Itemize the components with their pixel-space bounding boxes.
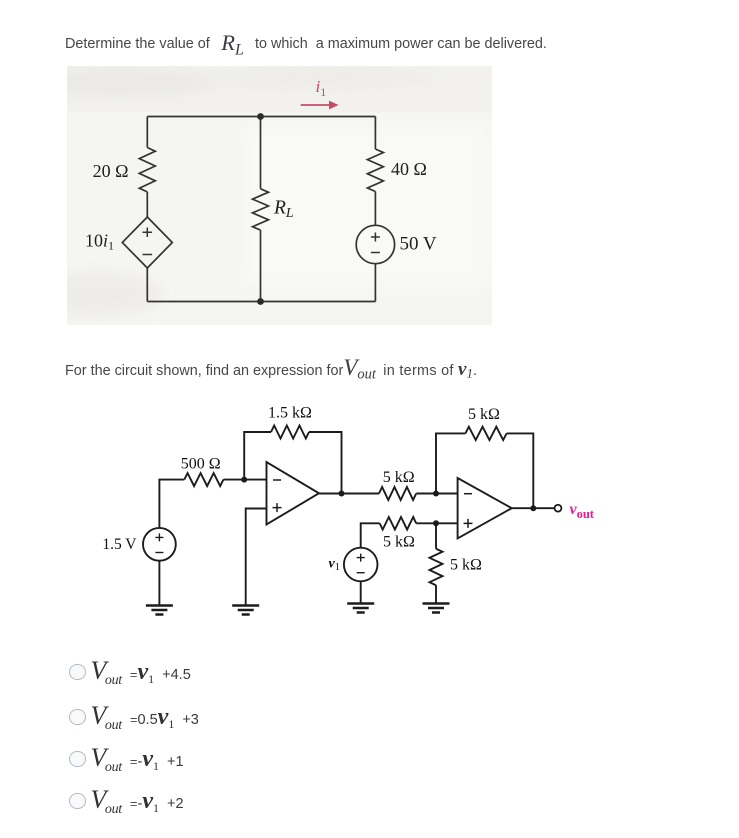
- svg-text:5 kΩ: 5 kΩ: [383, 534, 415, 551]
- voltage source v1 circle: [344, 548, 378, 582]
- wire source top to input line: [159, 480, 184, 528]
- wire left lower: [146, 268, 148, 302]
- wire feedback left vertical: [244, 432, 271, 480]
- plus minus inside 1.5V: [155, 533, 163, 552]
- svg-text:40 Ω: 40 Ω: [391, 159, 427, 179]
- voltage source 50V circle: [356, 225, 394, 263]
- wire v1 bottom: [360, 581, 362, 603]
- resistor 5k to v1: [380, 517, 417, 530]
- op-amp U1 triangle: [267, 462, 320, 525]
- wire right upper: [374, 117, 376, 150]
- resistor 1.5k feedback: [271, 426, 309, 439]
- wire op2 noninverting input line: [416, 522, 457, 524]
- wire to op1 inverting input: [223, 479, 266, 481]
- wire op2 feedback right vertical: [507, 433, 534, 508]
- svg-text:20 Ω: 20 Ω: [93, 161, 129, 181]
- resistor 5k vertical: [430, 549, 443, 586]
- terminal vout open circle: [555, 505, 562, 512]
- op2 minus plus signs: [464, 494, 473, 528]
- current arrow i1: [301, 101, 339, 110]
- wire middle lower: [260, 230, 262, 301]
- plus minus inside diamond: [143, 228, 153, 255]
- svg-text:vout: vout: [570, 501, 595, 521]
- wire right middle: [374, 192, 376, 226]
- svg-text:50 V: 50 V: [400, 234, 437, 255]
- plus minus inside 50V: [371, 233, 380, 253]
- question 2 text: [65, 355, 477, 384]
- svg-text:1.5 kΩ: 1.5 kΩ: [268, 405, 312, 422]
- ground under v1: [347, 604, 374, 613]
- wire node to vertical resistor: [435, 523, 437, 548]
- svg-text:v1: v1: [329, 557, 340, 574]
- resistor 5k feedback op2: [465, 427, 506, 440]
- voltage source 1.5V circle: [143, 528, 176, 561]
- ground under 5k vertical: [423, 604, 450, 613]
- wire bottom: [147, 301, 375, 303]
- resistor RL: [253, 189, 269, 230]
- svg-text:500 Ω: 500 Ω: [181, 456, 221, 473]
- node op2 output junction: [530, 505, 536, 511]
- ground under op1 plus: [232, 606, 259, 615]
- ground under 1.5V: [146, 606, 173, 615]
- node op1 output junction: [339, 491, 345, 497]
- wire op2 output: [512, 507, 555, 509]
- svg-text:5 kΩ: 5 kΩ: [383, 469, 415, 486]
- op1 minus plus signs: [273, 480, 282, 512]
- node top junction: [257, 113, 264, 120]
- dependent source 10i1 diamond: [122, 217, 172, 268]
- op-amp U2 triangle: [458, 478, 512, 538]
- node op2 inverting junction: [433, 491, 439, 497]
- wire vertical resistor to ground: [435, 585, 437, 603]
- svg-text:5 kΩ: 5 kΩ: [450, 557, 482, 574]
- wire feedback right vertical to output: [309, 432, 342, 494]
- wire left middle: [146, 192, 148, 217]
- wire op1 noninverting to ground: [246, 509, 267, 605]
- svg-text:5 kΩ: 5 kΩ: [468, 406, 500, 423]
- wire to op2 inverting input: [416, 493, 457, 495]
- wire middle upper: [260, 117, 262, 189]
- svg-text:1.5 V: 1.5 V: [102, 536, 137, 553]
- resistor 500 ohm: [184, 473, 223, 486]
- resistor 40 ohm: [367, 149, 383, 192]
- plus minus inside v1: [357, 554, 365, 573]
- node op1 inverting junction: [241, 477, 247, 483]
- node bottom junction: [257, 298, 264, 305]
- wire left upper: [146, 117, 148, 148]
- wire to v1 source: [361, 523, 380, 547]
- wire top: [147, 116, 375, 118]
- resistor 5k between opamps: [379, 487, 416, 500]
- question 1 text: [65, 28, 547, 58]
- resistor 20 ohm: [139, 148, 155, 192]
- node op2 noninverting junction: [433, 520, 439, 526]
- wire source bottom: [158, 561, 160, 605]
- wire right lower: [374, 264, 376, 302]
- wire op1 output to resistor: [319, 493, 379, 495]
- wire op2 feedback left vertical: [436, 433, 465, 493]
